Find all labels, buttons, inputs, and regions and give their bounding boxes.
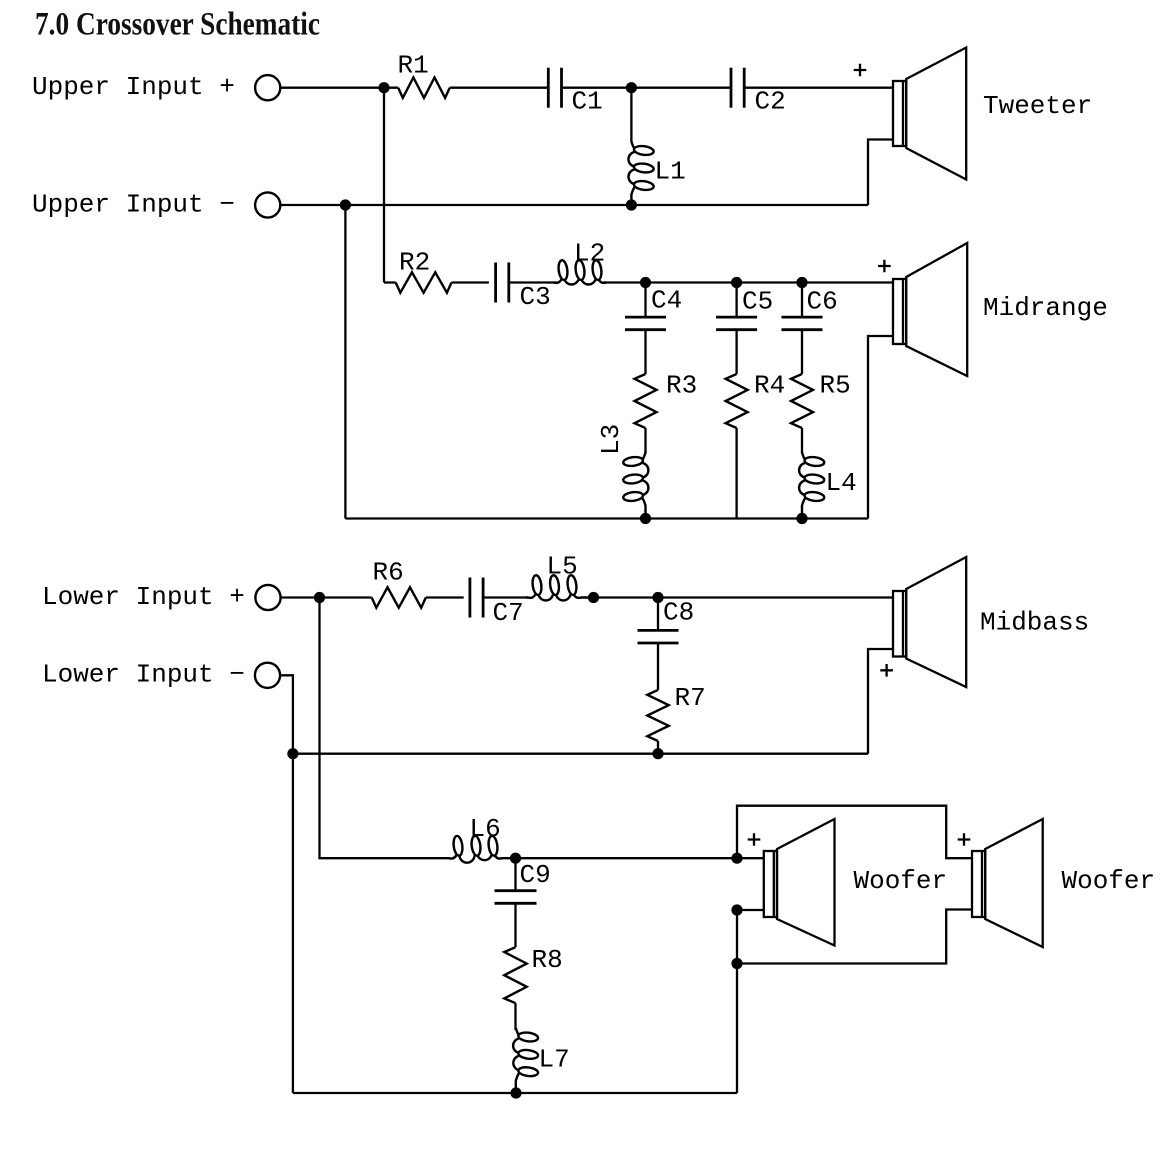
wire C9 stub [514,858,516,891]
wire lower minus rail [293,753,868,755]
resistor R1 [398,78,450,98]
midbass plus polarity [880,664,893,677]
wire woofer parallel top loop [737,806,972,859]
wire C8 stub [657,598,659,631]
svg-text:C3: C3 [520,282,551,312]
terminal Lower Input - [255,663,280,688]
capacitor C1 [548,68,561,108]
resistor R2 [396,272,452,292]
wire C1 to node [562,87,632,89]
resistor R3 [635,374,657,428]
wire R8 to L7 [514,1003,516,1030]
capacitor C2 [731,68,744,108]
junction node R7 bottom [652,748,663,759]
midrange plus polarity [878,260,891,273]
svg-text:Midbass: Midbass [980,608,1089,638]
wire C5 stub [735,283,737,318]
capacitor C5 [716,317,757,330]
capacitor C4 [625,317,666,330]
wire midrange bottom rail [345,517,868,519]
wire R2 to C3 [452,281,489,283]
wire lower plus input [281,596,372,598]
inductor L3 [623,450,649,519]
junction node L1 bottom [626,199,637,210]
junction node C8 top [652,592,663,603]
inductor L4 [799,453,825,519]
junction node L6-C9 [510,853,521,864]
junction node L5 end [588,592,599,603]
svg-text:R6: R6 [373,558,404,588]
svg-text:C2: C2 [755,87,786,117]
wire C6 stub [801,283,803,318]
woofer1 plus polarity [748,833,761,846]
inductor L2 [553,260,606,285]
junction node upper minus [340,199,351,210]
speaker Midbass [893,557,966,687]
capacitor C3 [496,263,509,303]
wire midbass return step [868,649,893,754]
svg-text:L3: L3 [596,424,626,455]
svg-text:L4: L4 [826,468,857,498]
wire C8 to R7 [657,643,659,690]
svg-text:R3: R3 [666,371,697,401]
junction node lower plus [314,592,325,603]
svg-text:C1: C1 [572,87,603,117]
wire C4 to R3 [644,330,646,374]
wire upper minus down to midrange rail [344,205,346,519]
svg-text:R8: R8 [532,945,563,975]
junction node C1-C2-L1 [626,82,637,93]
junction node L7 bottom [510,1087,521,1098]
capacitor C9 [495,891,537,904]
svg-text:Upper Input −: Upper Input − [32,189,235,219]
wire woofer1 plus stub [737,857,764,859]
svg-text:C5: C5 [742,287,773,317]
speaker Tweeter [893,48,966,180]
inductor L5 [526,575,594,601]
wire C4 stub [644,283,646,318]
wire woofer2 return [737,910,972,964]
wire lower minus stub [280,675,293,1093]
junction node L4 bottom [796,513,807,524]
wire C7 to L5 [483,596,528,598]
junction node L3 bottom [640,513,651,524]
svg-text:Lower Input −: Lower Input − [42,660,245,690]
junction node woofer low [731,958,742,969]
junction node upper plus [378,82,389,93]
wire node to C2 [631,87,731,89]
junction node woofer1 plus [731,853,742,864]
wire R2 corner [384,281,396,283]
svg-text:L7: L7 [539,1045,570,1075]
speaker Midrange [893,243,967,376]
wire L2 to midrange [604,281,893,283]
wire R1 to C1 [450,87,549,89]
terminal Lower Input + [255,585,280,610]
resistor R4 [726,374,748,428]
junction node C6 top [796,277,807,288]
capacitor C8 [638,630,679,643]
svg-text:Woofer: Woofer [854,866,948,896]
wire R7 to rail [657,741,659,754]
wire R4 to rail [735,428,737,519]
wire lower plus down to L6 [320,598,447,859]
wire upper minus rail [281,204,868,206]
inductor L6 [446,835,516,862]
wire woofer1 minus stub [737,909,764,911]
svg-text:Midrange: Midrange [983,293,1108,323]
svg-text:Tweeter: Tweeter [983,91,1092,121]
wire C5 to R4 [735,330,737,374]
terminal Upper Input + [255,75,280,100]
svg-text:C8: C8 [663,598,694,628]
svg-text:R5: R5 [820,371,851,401]
wire C6 to R5 [801,330,803,374]
speaker Woofer 2 [972,819,1043,947]
woofer2 plus polarity [958,833,971,846]
wire C2 to tweeter [744,87,893,89]
speaker Woofer 1 [764,819,835,946]
svg-text:Lower Input +: Lower Input + [42,582,245,612]
resistor R7 [647,690,668,741]
inductor L1 [628,142,654,206]
wire woofer low to bottom rail [736,964,738,1094]
svg-text:C4: C4 [651,286,682,316]
wire R3 to L3 [644,428,646,450]
wire vertical R1-R2 branch [383,88,385,283]
svg-text:7.0 Crossover Schematic: 7.0 Crossover Schematic [35,7,320,43]
junction node woofer1 minus [731,904,742,915]
inductor L7 [513,1028,538,1093]
terminal Upper Input - [255,192,280,217]
wire R5 to L4 [801,428,803,453]
svg-text:Upper Input +: Upper Input + [32,72,235,102]
wire R6 to C7 [426,596,464,598]
wire tweeter return step [868,140,893,206]
junction node C4 top [640,277,651,288]
svg-text:Woofer: Woofer [1062,866,1156,896]
svg-text:L1: L1 [655,157,686,187]
svg-text:C7: C7 [493,598,524,628]
svg-text:R2: R2 [399,248,430,278]
wire C9 to R8 [514,903,516,947]
junction node C5 top [731,277,742,288]
capacitor C6 [782,317,823,330]
svg-text:R4: R4 [754,371,785,401]
wire woofer1 minus down [736,910,738,964]
wire midrange return step [868,336,893,519]
resistor R8 [504,947,526,1003]
tweeter plus polarity [854,64,867,77]
wire L5 to midbass [594,596,894,598]
wire L6 to woofers [516,857,738,859]
wire upper plus input [281,87,398,89]
svg-text:R7: R7 [675,683,706,713]
wire C3 to L2 [509,281,557,283]
wire L1 top [630,88,632,142]
wire bottom rail [293,1092,737,1094]
svg-text:C9: C9 [520,860,551,890]
junction node lower minus rail [287,748,298,759]
resistor R5 [791,374,813,428]
svg-text:C6: C6 [807,287,838,317]
capacitor C7 [470,578,483,618]
resistor R6 [372,587,426,607]
